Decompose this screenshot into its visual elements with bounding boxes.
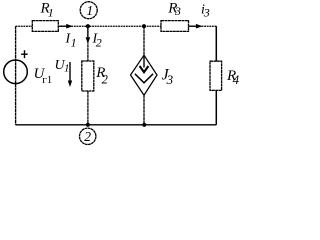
wire right vertical xyxy=(215,26,217,125)
svg-text:2: 2 xyxy=(96,35,102,49)
wire top middle segment xyxy=(58,25,161,27)
resistor R2 box xyxy=(82,61,94,91)
wire left vertical xyxy=(15,26,17,125)
wire top-left segment xyxy=(16,25,33,27)
svg-text:г1: г1 xyxy=(42,74,52,86)
svg-text:3: 3 xyxy=(203,5,210,19)
wire branch J3 lower xyxy=(143,95,145,125)
current arrow I2 xyxy=(86,28,91,44)
svg-text:1: 1 xyxy=(64,63,70,75)
svg-text:2: 2 xyxy=(84,129,91,144)
current arrow I1 xyxy=(60,24,73,29)
current arrow i3 xyxy=(190,24,203,29)
node dot node2 xyxy=(86,123,90,127)
svg-text:1: 1 xyxy=(48,6,54,20)
voltage source U_g1 circle xyxy=(4,60,28,84)
junction dot bottom J3 xyxy=(142,123,146,127)
J3 arrow shaft xyxy=(143,57,145,68)
node label circle 2 xyxy=(80,128,96,144)
current source J3 diamond xyxy=(131,55,158,95)
svg-text:1: 1 xyxy=(86,4,93,19)
node dot node1 xyxy=(86,24,90,28)
plus sign of source xyxy=(21,50,28,58)
voltage arrow U1 xyxy=(68,62,72,87)
svg-text:3: 3 xyxy=(166,72,174,87)
svg-text:4: 4 xyxy=(233,72,240,87)
resistor R3 box xyxy=(161,21,189,32)
svg-text:1: 1 xyxy=(71,36,77,50)
svg-text:2: 2 xyxy=(102,72,108,86)
node label circle 1 xyxy=(80,2,97,19)
svg-text:3: 3 xyxy=(174,4,181,18)
J3 chevron xyxy=(135,74,153,83)
junction dot top J3 xyxy=(142,24,146,28)
wire branch J3 upper xyxy=(143,26,145,55)
resistor R1 box xyxy=(32,21,58,32)
wire bottom xyxy=(16,124,217,126)
wire top right segment xyxy=(189,25,217,27)
wire branch node1 to R2 xyxy=(87,26,89,125)
J3 arrowhead xyxy=(140,66,149,72)
resistor R4 box xyxy=(210,61,222,90)
